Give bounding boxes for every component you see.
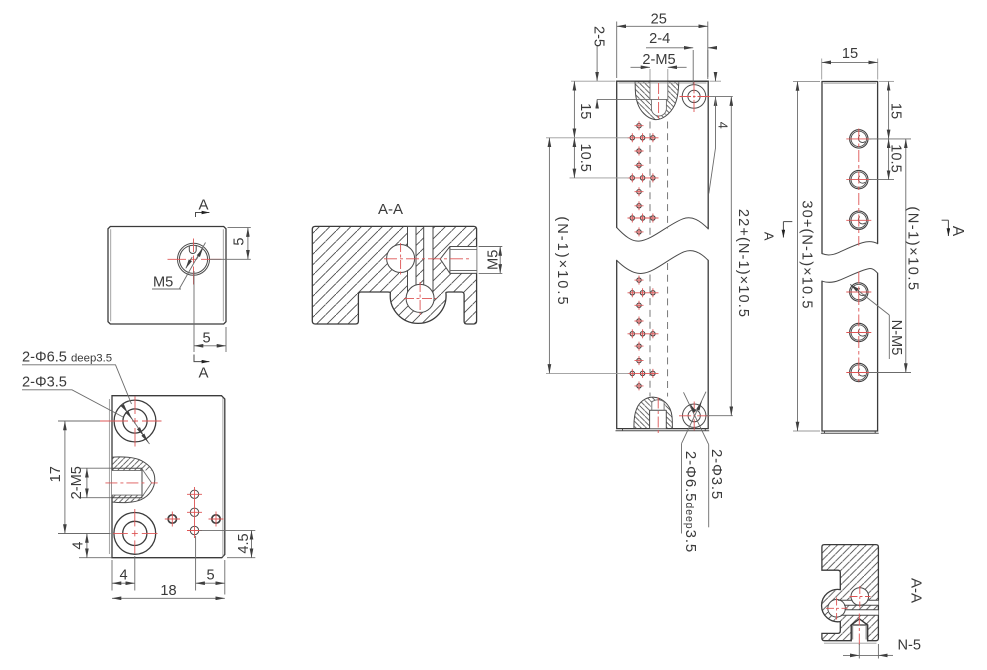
svg-text:22+(N-1)×10.5: 22+(N-1)×10.5: [735, 209, 751, 318]
M5 thread lines: [112, 468, 142, 498]
svg-text:A-A: A-A: [908, 578, 925, 603]
leader M5 with diameter arrows: [180, 243, 206, 289]
right small hole: [212, 515, 220, 523]
hole position mark: [635, 227, 644, 236]
label N-M5 with leader: [850, 284, 889, 315]
hidden lines M5 channel: [649, 122, 651, 240]
cross-hole pattern: top small hole: [190, 490, 198, 498]
M5 tapped hole top view: [178, 243, 210, 275]
hole position row: [628, 173, 659, 182]
svg-text:A: A: [762, 232, 777, 241]
dimension (N-1)x10.5 (left): [546, 138, 629, 374]
centerline M5 side hole: [105, 482, 157, 484]
svg-text:(N-1)×10.5: (N-1)×10.5: [905, 206, 921, 291]
extension/step line y99.4: [597, 98, 668, 100]
svg-text:M5: M5: [153, 275, 173, 291]
dimension 15 (left): [571, 80, 616, 82]
plate outline lower part: [822, 273, 878, 431]
bottom edge chamfer line: [616, 429, 710, 431]
M5 thread walls (bottom): [650, 410, 667, 428]
bore circle upper outline: [851, 588, 869, 606]
svg-text:30+(N-1)×10.5: 30+(N-1)×10.5: [799, 200, 815, 309]
hole position row: [628, 329, 659, 338]
dimension 2-4: [693, 50, 708, 85]
hole position mark: [635, 342, 644, 351]
svg-text:15: 15: [887, 103, 903, 119]
dimension 5 (bottom): [196, 536, 225, 595]
threaded hole M5: [846, 363, 871, 381]
dimension 18 (bottom): [112, 597, 225, 599]
section line A (top): [196, 213, 210, 218]
svg-text:5: 5: [232, 237, 248, 245]
hole position mark: [635, 301, 644, 310]
leader to inner counterbore: [22, 390, 123, 417]
dimension 2-M5 (top): [650, 69, 668, 81]
plate outline upper part: [617, 81, 709, 229]
bottom edge chamfer line: [821, 431, 879, 433]
hole position row: [628, 288, 659, 297]
dimension 15 (top): [822, 59, 878, 80]
dimension 2-M5 (left): [80, 468, 112, 498]
dimension M5 (right): [479, 247, 503, 274]
threaded hole M5: [846, 211, 871, 229]
threaded hole M5: [846, 130, 871, 148]
plate outline lower part: [617, 260, 709, 428]
bottom edge chamfer line: [824, 642, 877, 644]
break line upper: [617, 218, 709, 241]
svg-text:2-5: 2-5: [591, 26, 607, 47]
hole position mark: [635, 356, 644, 365]
M5 side hole (white): [440, 247, 476, 274]
edge chamfer lines top view: [111, 229, 224, 321]
dimension 4 (left bottom): [79, 557, 112, 559]
section line A (bottom): [194, 355, 209, 362]
svg-text:A: A: [198, 197, 208, 214]
leader X for bottom counterbores: [682, 392, 707, 444]
threaded hole M5: [846, 323, 871, 341]
svg-text:A: A: [949, 226, 966, 237]
M5 thread walls (top): [650, 81, 668, 99]
section mark A (left): [783, 221, 792, 223]
svg-text:N-M5: N-M5: [888, 320, 904, 356]
channel A walls: [408, 226, 417, 292]
hole pattern dots view3: [628, 121, 659, 390]
svg-text:2-4: 2-4: [649, 31, 670, 47]
counterbore top (2-x06.5 deep3.5 / 2-x03.5): [114, 400, 156, 442]
dimension 4 (bottom): [112, 556, 135, 591]
threaded hole M5: [846, 283, 871, 301]
M5 broken-out section (bottom end): [634, 397, 672, 428]
centerline of hole: [168, 258, 222, 260]
bore circle left outline: [828, 600, 846, 618]
svg-text:17: 17: [48, 466, 64, 482]
hole position mark: [635, 161, 644, 170]
bore circle left (white): [828, 600, 846, 618]
red crosses small holes: [187, 487, 202, 538]
svg-text:5: 5: [206, 568, 214, 584]
svg-text:4: 4: [71, 541, 87, 549]
label 2-PHI6.5 deep3.5 (rotated): [681, 444, 683, 534]
drilled channel A (white): [408, 227, 417, 291]
middle small hole: [190, 508, 198, 516]
svg-text:2-Φ6.5 deep3.5: 2-Φ6.5 deep3.5: [22, 350, 112, 366]
counterbore bottom: [114, 513, 156, 555]
edge chamfer lines: [109, 398, 222, 557]
cross channel A (white): [840, 600, 878, 605]
svg-text:15: 15: [577, 103, 593, 119]
threaded hole M5: [846, 170, 871, 188]
svg-text:4: 4: [716, 122, 730, 129]
svg-text:A-A: A-A: [378, 201, 403, 218]
channel B walls: [424, 226, 433, 293]
svg-text:15: 15: [842, 46, 858, 62]
hole position row: [628, 369, 659, 378]
dimension 5 (bottom): [194, 271, 226, 352]
bottom small hole: [190, 526, 198, 534]
svg-text:A: A: [198, 365, 208, 382]
M5 side hole outline: [440, 247, 476, 274]
centerlines bottom counterbore: [113, 532, 158, 534]
svg-text:(N-1)×10.5: (N-1)×10.5: [554, 216, 570, 306]
M5 broken-out section (top end): [635, 81, 679, 119]
dimension 10.5 (right): [869, 139, 911, 180]
plate outline upper part: [822, 82, 878, 254]
svg-text:5: 5: [202, 331, 210, 347]
section mark A (right): [942, 219, 949, 221]
break line lower: [617, 251, 709, 274]
hole position row: [628, 214, 659, 223]
dimension 2-5 (left): [596, 46, 598, 81]
break line upper: [822, 242, 878, 255]
centerline top slot: [658, 83, 660, 121]
svg-text:N-5: N-5: [898, 638, 922, 654]
svg-text:18: 18: [160, 583, 176, 599]
bore C2 (white): [406, 284, 434, 312]
svg-text:4: 4: [119, 568, 127, 584]
section body hatched: [312, 226, 476, 324]
bore C1 outline: [387, 245, 415, 273]
M5 side hole broken-out section: [112, 457, 155, 503]
top edge chamfer line: [824, 82, 877, 84]
svg-text:2-Φ3.5: 2-Φ3.5: [708, 449, 725, 500]
svg-text:2-Φ3.5: 2-Φ3.5: [22, 375, 67, 391]
hole position row: [628, 133, 659, 142]
centerline bottom slot: [657, 398, 659, 436]
block outline top view: [108, 227, 226, 325]
svg-text:2-M5: 2-M5: [642, 52, 675, 68]
hole position mark: [635, 381, 644, 390]
dimension (N-1)x10.5 (right): [869, 372, 911, 374]
svg-text:2-Φ6.5deep3.5: 2-Φ6.5deep3.5: [682, 451, 699, 553]
M5 thread minor lines: [450, 249, 476, 270]
hole position mark: [635, 187, 644, 196]
dimension 17 (left): [58, 421, 111, 534]
bore C1 (white): [387, 245, 415, 273]
dimension N-5: [859, 644, 878, 659]
break line lower: [822, 269, 878, 283]
dimension 30+(N-1)x10.5 (left): [793, 82, 820, 432]
hole position mark: [635, 201, 644, 210]
leader to outer counterbore: [22, 365, 132, 404]
left small hole: [168, 515, 176, 523]
bore C2 outline: [406, 284, 434, 312]
dimension 4 (top right): [710, 80, 722, 82]
drilled channel B (white): [424, 227, 433, 291]
cross channel B (white): [842, 610, 878, 615]
block outline front view: [112, 396, 225, 558]
top edge chamfer line: [619, 82, 707, 84]
diameter arrows through top counterbore: [124, 408, 150, 445]
dimension 15 (right): [879, 80, 894, 82]
hole position mark: [635, 317, 644, 326]
threaded holes N-M5: [846, 130, 871, 382]
counterbore hole bottom right: [683, 404, 706, 427]
centerline of hole row: [858, 129, 860, 246]
centerline C1 vertical: [400, 243, 402, 275]
svg-text:25: 25: [651, 12, 667, 28]
hole position mark: [635, 147, 644, 156]
svg-text:M5: M5: [485, 250, 501, 270]
centerline C2: [404, 297, 436, 299]
svg-text:2-M5: 2-M5: [69, 466, 85, 499]
red centerlines view6: [850, 586, 871, 608]
dimension 5 (right side): [210, 228, 251, 260]
counterbore hole top right: [682, 85, 706, 109]
hole position mark: [635, 276, 644, 285]
dimension 22+(N-1)x10.5 (right): [707, 415, 733, 417]
dimension 10.5 (left): [570, 177, 629, 179]
svg-text:4.5: 4.5: [236, 533, 252, 553]
svg-text:10.5: 10.5: [887, 144, 903, 172]
svg-text:10.5: 10.5: [577, 143, 593, 171]
M5 tapped hole walls (bottom): [851, 619, 867, 641]
dimension 4.5 (right): [200, 530, 256, 557]
section body hatched: [822, 545, 879, 641]
dimensions view3: [546, 12, 751, 554]
centerline M5/C1 horizontal: [384, 258, 471, 260]
bore circle upper (white): [851, 588, 869, 606]
channel walls: [838, 600, 879, 615]
hole position mark: [635, 121, 644, 130]
dimension 25 (top): [617, 22, 708, 79]
label 2-PHI3.5 (rotated): [708, 445, 710, 528]
centerlines top counterbore: [100, 420, 162, 422]
